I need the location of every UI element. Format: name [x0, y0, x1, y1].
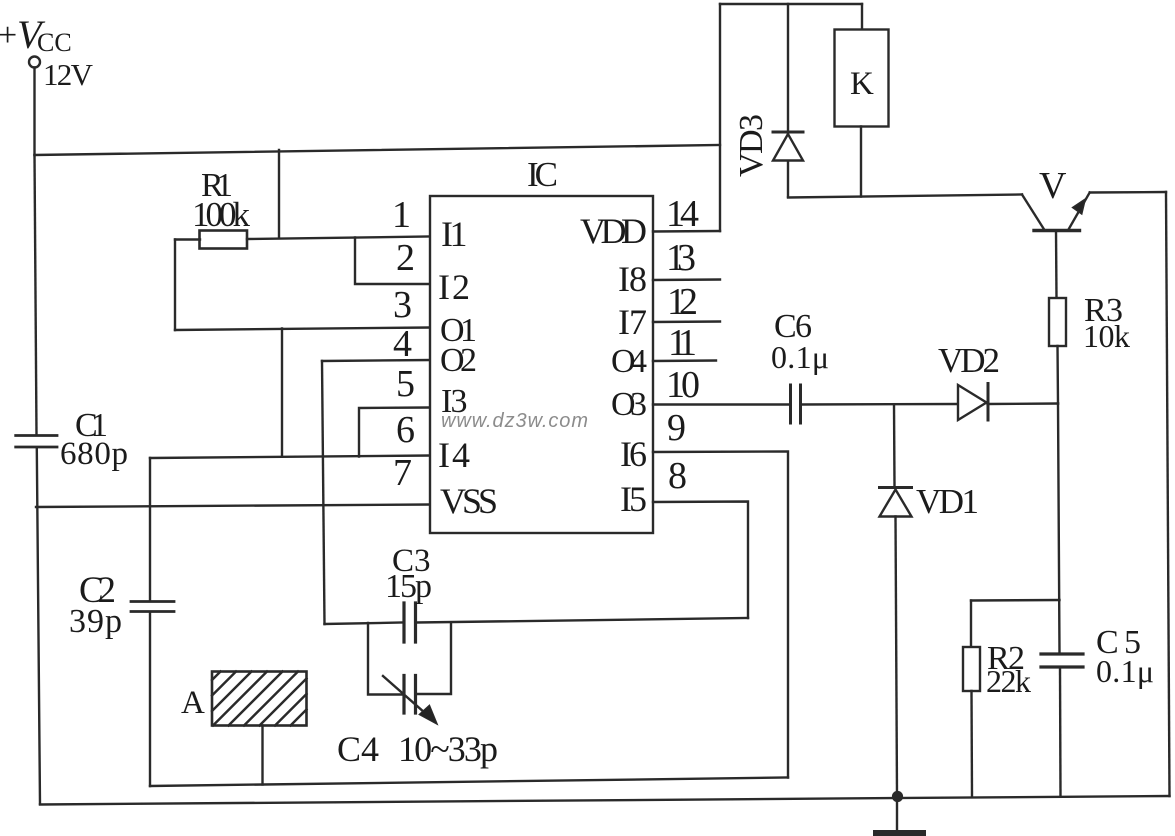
- transistor V: [1022, 195, 1044, 229]
- wire left rail lower: [37, 449, 40, 805]
- svg-text:K: K: [850, 66, 874, 102]
- wire R2 lower lead: [970, 691, 973, 796]
- svg-text:4: 4: [393, 323, 412, 365]
- wire top feed line: [720, 3, 862, 5]
- arrow of variable capacitor C4: [383, 676, 433, 720]
- svg-text:I4: I4: [438, 435, 470, 475]
- junction dot: [892, 791, 903, 802]
- capacitor C4 variable: [404, 676, 416, 714]
- pin12 stub: [653, 320, 720, 323]
- wire pin8 I5 loop: [653, 502, 748, 619]
- wire C4 bypass left stub: [368, 623, 403, 695]
- wire VD1 branch lower: [896, 517, 898, 796]
- svg-text:4: 4: [680, 193, 699, 235]
- svg-text:0: 0: [681, 364, 700, 406]
- svg-text:O4: O4: [611, 343, 647, 380]
- svg-text:1: 1: [450, 214, 468, 254]
- svg-text:0.1μ: 0.1μ: [1096, 653, 1154, 689]
- wire pin14 vertical riser: [719, 4, 721, 231]
- capacitor C3: [404, 603, 416, 642]
- wire top rail: [35, 145, 721, 155]
- svg-text:VSS: VSS: [440, 481, 498, 521]
- wire base vertical to R3: [1055, 231, 1058, 299]
- svg-text:+: +: [0, 17, 17, 54]
- wire C2 upper lead: [149, 458, 151, 600]
- svg-text:12V: 12V: [43, 57, 94, 92]
- wire VD1 branch upper: [893, 405, 896, 487]
- wire pin4 O2 line: [322, 360, 430, 361]
- wire R2 top link: [971, 599, 1060, 602]
- wire R2 upper lead: [970, 601, 972, 648]
- svg-text:I8: I8: [618, 259, 647, 299]
- wire R3 to O3 node vertical: [1056, 346, 1059, 404]
- svg-text:10k: 10k: [1083, 318, 1130, 354]
- wire Vcc drop: [33, 68, 35, 156]
- wire K top lead: [861, 4, 863, 31]
- IC U1 body: [430, 196, 653, 533]
- svg-text:IC: IC: [527, 155, 558, 194]
- wire VD3 branch vertical: [787, 4, 789, 197]
- svg-text:1: 1: [392, 194, 411, 236]
- pin11 stub: [653, 359, 716, 362]
- wire C3 line right: [417, 618, 748, 623]
- svg-text:www.dz3w.com: www.dz3w.com: [441, 410, 588, 432]
- wire K bottom lead: [860, 127, 862, 197]
- svg-text:8: 8: [668, 455, 687, 497]
- svg-text:0.1μ: 0.1μ: [771, 339, 829, 375]
- svg-text:C4: C4: [337, 729, 379, 769]
- svg-text:680p: 680p: [60, 436, 128, 472]
- diode VD3: [773, 131, 803, 134]
- wire O2 vertical to C3 net: [322, 361, 325, 624]
- svg-text:39p: 39p: [69, 603, 122, 640]
- wire pin14 VDD line: [653, 230, 720, 233]
- svg-text:I5: I5: [620, 479, 647, 519]
- svg-text:5: 5: [396, 363, 415, 405]
- wire pin7 VSS line: [36, 505, 430, 508]
- wire pin1 line: [247, 237, 430, 240]
- svg-text:I6: I6: [620, 434, 647, 474]
- svg-text:VD1: VD1: [916, 482, 979, 521]
- capacitor C6: [791, 385, 801, 423]
- wire VD2 to R3 node: [988, 402, 1059, 405]
- wire R1 left lead: [175, 238, 200, 240]
- svg-text:V: V: [1039, 165, 1067, 207]
- wire C6 to VD2: [801, 403, 959, 406]
- svg-text:3: 3: [677, 237, 696, 279]
- svg-text:6: 6: [396, 409, 415, 451]
- wire O1 to I4 vertical: [281, 329, 283, 457]
- svg-text:VD3: VD3: [733, 114, 770, 177]
- svg-text:3: 3: [393, 284, 412, 326]
- svg-text:2: 2: [679, 281, 698, 323]
- svg-text:CC: CC: [37, 28, 72, 57]
- wire inner bottom line: [150, 778, 788, 787]
- wire pin6 I4 line: [150, 456, 430, 459]
- wire C4 bypass right stub: [417, 623, 451, 695]
- power terminal +Vcc: [29, 57, 40, 68]
- svg-text:I7: I7: [618, 302, 647, 342]
- wire pin5 loop: [359, 408, 430, 457]
- wire Vcc drop to pin1 net: [278, 150, 280, 238]
- svg-text:1: 1: [678, 322, 697, 364]
- svg-text:VDD: VDD: [580, 211, 647, 251]
- wire pin9 I6 loop: [653, 452, 788, 778]
- capacitor C1: [16, 436, 57, 448]
- svg-text:15p: 15p: [385, 568, 432, 605]
- wire O3 pin10 line: [653, 403, 789, 405]
- svg-text:7: 7: [393, 452, 412, 494]
- wire C5 to bottom rail: [1059, 668, 1062, 796]
- resistor R2: [963, 647, 980, 691]
- svg-text:O3: O3: [611, 386, 647, 423]
- svg-text:10~33p: 10~33p: [398, 729, 498, 769]
- pin13 stub: [653, 278, 720, 281]
- ground: [896, 796, 898, 832]
- wire pin3 O1 line: [175, 328, 430, 331]
- diode VD1: [880, 486, 912, 489]
- wire VD3 to transistor base line: [788, 195, 1022, 198]
- svg-text:A: A: [181, 685, 205, 721]
- capacitor C5: [1041, 654, 1083, 667]
- wire right rail: [1166, 192, 1170, 796]
- wire pin2 loop: [355, 238, 430, 285]
- wire left rail upper: [35, 155, 37, 434]
- relay K body: [835, 30, 889, 127]
- svg-text:I2: I2: [438, 267, 470, 307]
- svg-text:2: 2: [396, 237, 415, 279]
- resonator A hatched box: [212, 672, 307, 726]
- diode VD2: [958, 385, 987, 420]
- wire C2 lower lead: [149, 613, 151, 786]
- resistor R3: [1049, 298, 1066, 346]
- wire C3 line left: [325, 623, 403, 625]
- wire R3 node to C5 vertical: [1058, 404, 1060, 654]
- svg-text:9: 9: [667, 407, 686, 449]
- resistor R1: [200, 231, 248, 249]
- wire A lead: [261, 726, 263, 785]
- capacitor C2: [131, 602, 174, 612]
- wire R1 left to O1 vertical: [174, 240, 176, 331]
- wire emitter to right rail: [1090, 191, 1166, 194]
- svg-text:VD2: VD2: [938, 341, 1000, 380]
- svg-text:O2: O2: [440, 342, 477, 379]
- svg-text:100k: 100k: [192, 195, 251, 234]
- wire bottom rail: [40, 796, 1170, 805]
- svg-text:22k: 22k: [986, 663, 1031, 699]
